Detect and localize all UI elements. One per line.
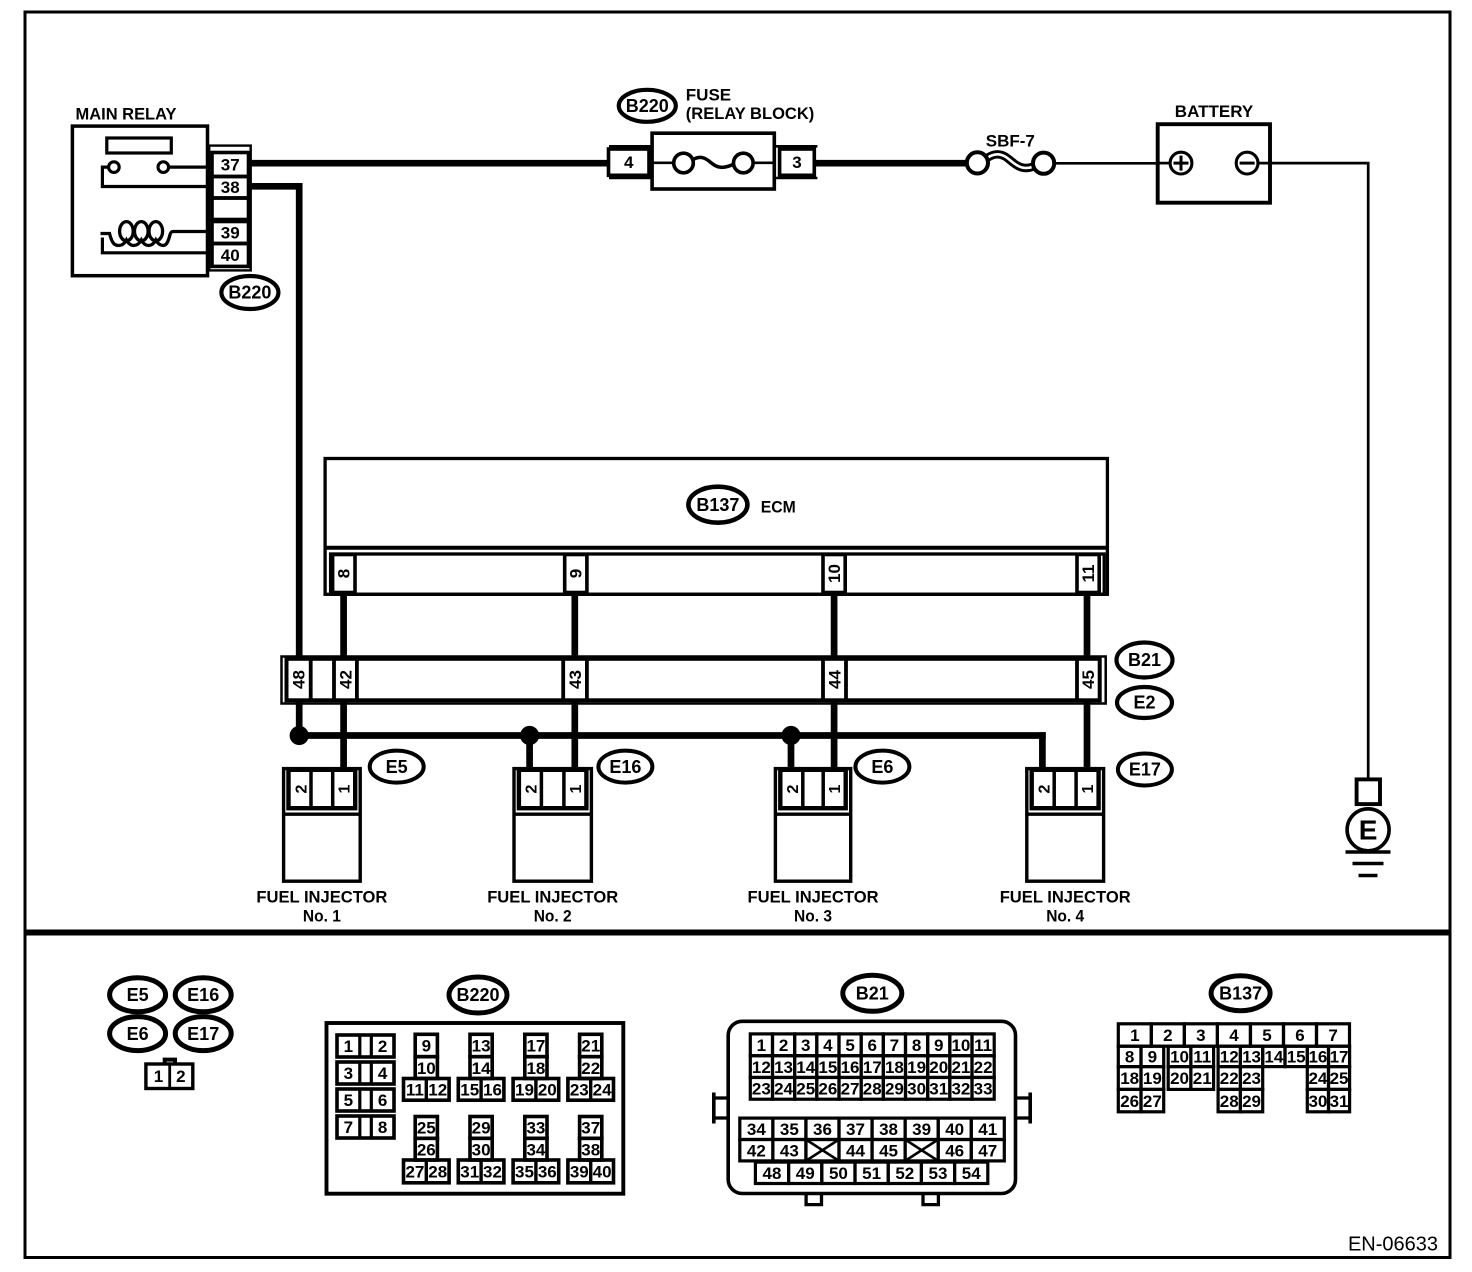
svg-text:7: 7: [1328, 1026, 1337, 1045]
svg-text:24: 24: [593, 1081, 612, 1100]
connector E6 oval: [855, 751, 909, 783]
fuel injector No. 2 label: [487, 888, 618, 926]
svg-text:26: 26: [417, 1140, 436, 1159]
ECM connector strip: [331, 554, 1105, 594]
svg-text:5: 5: [1262, 1026, 1271, 1045]
svg-text:22: 22: [581, 1059, 600, 1078]
svg-text:39: 39: [570, 1163, 589, 1182]
svg-text:6: 6: [1295, 1026, 1304, 1045]
svg-text:3: 3: [801, 1036, 810, 1055]
svg-text:21: 21: [1193, 1069, 1212, 1088]
svg-text:E2: E2: [1133, 693, 1155, 713]
svg-text:12: 12: [428, 1081, 447, 1100]
svg-text:11: 11: [1079, 565, 1098, 583]
svg-text:1: 1: [568, 784, 585, 793]
svg-text:No. 3: No. 3: [794, 907, 832, 926]
svg-text:E: E: [1359, 815, 1378, 846]
svg-text:16: 16: [841, 1058, 860, 1077]
B220 pins 3-4: [337, 1062, 394, 1084]
svg-text:10: 10: [417, 1059, 436, 1078]
connector B137 oval in ECM: [688, 487, 747, 523]
wire contact right to pin 37: [169, 166, 213, 169]
connector E16 oval: [598, 751, 652, 783]
svg-text:17: 17: [863, 1058, 882, 1077]
svg-text:35: 35: [780, 1120, 799, 1139]
fuse box: [652, 133, 774, 189]
svg-text:37: 37: [221, 155, 240, 174]
svg-text:E6: E6: [871, 757, 893, 777]
fuel injector No. 3 body: [775, 769, 850, 882]
svg-text:27: 27: [1143, 1092, 1162, 1111]
B137 pins 1-7 row: [1118, 1024, 1349, 1046]
svg-text:30: 30: [472, 1140, 491, 1159]
svg-text:40: 40: [221, 246, 240, 265]
pin 8: [333, 555, 355, 593]
svg-text:19: 19: [1143, 1069, 1162, 1088]
svg-text:5: 5: [344, 1091, 353, 1110]
svg-text:16: 16: [1308, 1048, 1327, 1067]
relay coil: [101, 222, 214, 246]
svg-text:13: 13: [472, 1037, 491, 1056]
svg-text:15: 15: [1287, 1048, 1306, 1067]
svg-text:19: 19: [907, 1058, 926, 1077]
svg-text:2: 2: [1163, 1026, 1172, 1045]
svg-text:20: 20: [1170, 1069, 1189, 1088]
svg-text:42: 42: [747, 1141, 766, 1160]
B220 pins 9-12: [404, 1034, 450, 1100]
svg-text:17: 17: [1330, 1048, 1349, 1067]
svg-text:44: 44: [846, 1141, 865, 1160]
svg-text:43: 43: [566, 670, 585, 689]
svg-text:21: 21: [951, 1058, 970, 1077]
fuse block label: [686, 86, 815, 124]
svg-text:48: 48: [763, 1164, 782, 1183]
wire pin 45 to injector 4 pin 1: [1084, 700, 1091, 770]
svg-text:EN-06633: EN-06633: [1348, 1234, 1438, 1256]
wire bus to injector 4 pin 2: [1039, 732, 1046, 770]
connector E17 oval: [1118, 754, 1172, 786]
svg-text:3: 3: [1196, 1026, 1205, 1045]
B220 pins 25-28: [404, 1117, 450, 1183]
svg-text:10: 10: [1170, 1048, 1189, 1067]
wire battery to ground: [1258, 162, 1370, 165]
svg-text:17: 17: [526, 1037, 545, 1056]
svg-text:25: 25: [796, 1080, 815, 1099]
svg-text:6: 6: [378, 1091, 387, 1110]
svg-text:B220: B220: [626, 96, 669, 116]
connector B220 oval (legend): [449, 977, 507, 1013]
fusible link SBF-7: [967, 152, 1054, 174]
svg-text:18: 18: [526, 1059, 545, 1078]
svg-text:SBF-7: SBF-7: [986, 131, 1035, 150]
connector B21 oval: [1117, 643, 1173, 678]
B21 pins 1-33 grid: [750, 1034, 994, 1099]
svg-text:39: 39: [221, 223, 240, 242]
svg-text:6: 6: [868, 1036, 877, 1055]
svg-text:11: 11: [1193, 1048, 1211, 1067]
B137 pins 8-31 grid: [1118, 1046, 1349, 1112]
wire coil to pin 40: [102, 238, 213, 253]
svg-text:7: 7: [890, 1036, 899, 1055]
svg-text:E17: E17: [1129, 760, 1161, 780]
svg-text:25: 25: [1330, 1069, 1349, 1088]
svg-text:4: 4: [823, 1036, 833, 1055]
svg-text:10: 10: [825, 564, 844, 583]
B220 pins 37-40: [568, 1117, 614, 1183]
B220 pins 5-6: [337, 1089, 394, 1111]
relay contact left: [109, 162, 120, 173]
ECM U B137 box: [325, 459, 1107, 595]
svg-text:19: 19: [515, 1081, 534, 1100]
wire pin 43 to injector 2 pin 1: [571, 700, 578, 770]
svg-text:13: 13: [1242, 1048, 1261, 1067]
pin 38: [212, 177, 249, 199]
svg-text:1: 1: [154, 1067, 163, 1086]
svg-text:FUEL INJECTOR: FUEL INJECTOR: [1000, 888, 1131, 907]
svg-text:20: 20: [929, 1058, 948, 1077]
fuel injector No. 4 label: [1000, 888, 1131, 926]
svg-text:32: 32: [483, 1163, 502, 1182]
svg-text:1: 1: [827, 784, 844, 793]
B21 pins 48-54 grid: [755, 1162, 987, 1183]
svg-text:11: 11: [974, 1036, 992, 1055]
svg-text:5: 5: [845, 1036, 854, 1055]
svg-text:8: 8: [912, 1036, 921, 1055]
wire pin 3 to SBF-7: [814, 160, 968, 167]
svg-text:FUSE: FUSE: [686, 86, 731, 105]
connector E6 oval (legend): [110, 1017, 166, 1051]
svg-text:12: 12: [752, 1058, 771, 1077]
fuel injector No. 2 connector: [519, 770, 587, 808]
B220 pins 7-8: [337, 1116, 394, 1138]
svg-text:28: 28: [428, 1163, 447, 1182]
relay contact right: [158, 162, 169, 173]
relay K1 MAIN RELAY box: [72, 126, 207, 276]
svg-text:9: 9: [422, 1037, 431, 1056]
svg-text:E17: E17: [187, 1024, 219, 1044]
svg-text:1: 1: [344, 1037, 353, 1056]
svg-text:33: 33: [526, 1119, 545, 1138]
injector connector pinout view: [146, 1060, 193, 1089]
svg-text:34: 34: [526, 1140, 545, 1159]
svg-text:18: 18: [885, 1058, 904, 1077]
svg-text:2: 2: [779, 1036, 788, 1055]
svg-text:29: 29: [885, 1080, 904, 1099]
node junction 1: [290, 726, 309, 745]
fuel injector No. 4 body: [1027, 769, 1104, 882]
B220 pins 17-20: [513, 1034, 559, 1100]
svg-text:FUEL INJECTOR: FUEL INJECTOR: [256, 888, 387, 907]
svg-text:44: 44: [825, 670, 844, 689]
svg-text:BATTERY: BATTERY: [1175, 102, 1254, 121]
B220 pins 13-16: [458, 1034, 504, 1100]
svg-text:3: 3: [792, 153, 801, 172]
svg-text:24: 24: [774, 1080, 793, 1099]
harness strip cells: [287, 659, 1100, 701]
svg-text:47: 47: [978, 1141, 997, 1160]
svg-text:No. 1: No. 1: [303, 907, 341, 926]
fuel injector No. 1 label: [256, 888, 387, 926]
B220 pins 21-24: [568, 1034, 614, 1100]
svg-text:4: 4: [378, 1064, 388, 1083]
battery negative terminal: [1236, 152, 1258, 174]
battery positive terminal: [1158, 152, 1192, 174]
svg-text:30: 30: [907, 1080, 926, 1099]
fuel injector No. 3 label: [748, 888, 879, 926]
svg-text:E16: E16: [609, 757, 641, 777]
wire pin 37 to fuse pin 4: [249, 160, 609, 167]
svg-text:4: 4: [1229, 1026, 1239, 1045]
svg-text:12: 12: [1220, 1048, 1239, 1067]
svg-text:51: 51: [862, 1164, 881, 1183]
svg-text:MAIN RELAY: MAIN RELAY: [76, 105, 178, 124]
connector E2 oval: [1117, 687, 1172, 718]
svg-text:23: 23: [1242, 1069, 1261, 1088]
ground terminal box: [1357, 779, 1380, 804]
connector B137 oval (legend): [1211, 976, 1270, 1011]
node junction 2: [520, 726, 539, 745]
svg-text:37: 37: [581, 1119, 600, 1138]
svg-text:36: 36: [813, 1120, 832, 1139]
svg-text:53: 53: [929, 1164, 948, 1183]
svg-text:2: 2: [524, 784, 541, 793]
svg-text:42: 42: [336, 670, 355, 689]
harness strip outline: [282, 657, 1106, 704]
wire pin 38 down to injector bus: [249, 183, 303, 190]
B220 pins 1-2: [337, 1035, 394, 1057]
fuel injector No. 3 connector: [780, 770, 845, 808]
svg-text:16: 16: [483, 1081, 502, 1100]
fuse symbol: [652, 153, 774, 173]
wire pin 44 to injector 3 pin 1: [831, 700, 838, 770]
pin 40: [212, 244, 249, 267]
svg-text:B21: B21: [1128, 650, 1161, 670]
fuel injector No. 1 body: [284, 769, 361, 882]
svg-text:41: 41: [978, 1120, 997, 1139]
svg-text:32: 32: [951, 1080, 970, 1099]
svg-text:22: 22: [974, 1058, 993, 1077]
svg-text:11: 11: [406, 1081, 424, 1100]
svg-text:8: 8: [378, 1118, 387, 1137]
svg-text:FUEL INJECTOR: FUEL INJECTOR: [748, 888, 879, 907]
svg-text:18: 18: [1120, 1069, 1139, 1088]
svg-text:39: 39: [912, 1120, 931, 1139]
wire pin 10 to pin 44: [831, 592, 838, 660]
svg-text:1: 1: [337, 784, 354, 793]
svg-text:31: 31: [460, 1163, 479, 1182]
svg-text:38: 38: [221, 178, 240, 197]
connector E5 oval (legend): [110, 978, 166, 1012]
svg-text:40: 40: [593, 1163, 612, 1182]
svg-text:26: 26: [818, 1080, 837, 1099]
pin 11: [1077, 555, 1099, 593]
svg-text:15: 15: [818, 1058, 837, 1077]
connector B220 oval at relay: [221, 276, 278, 309]
svg-text:31: 31: [1330, 1092, 1349, 1111]
svg-text:34: 34: [747, 1120, 766, 1139]
svg-text:2: 2: [1037, 784, 1054, 793]
wire contact left to pin 38: [102, 167, 213, 186]
svg-text:24: 24: [1308, 1069, 1327, 1088]
svg-text:38: 38: [581, 1140, 600, 1159]
svg-text:B220: B220: [228, 283, 271, 303]
svg-text:4: 4: [624, 153, 634, 172]
svg-text:2: 2: [293, 784, 310, 793]
pin 37: [212, 153, 249, 177]
pin 3: [775, 146, 817, 178]
svg-text:B137: B137: [696, 495, 739, 515]
svg-text:13: 13: [774, 1058, 793, 1077]
fuel injector No. 4 connector: [1032, 770, 1099, 808]
connector E5 oval: [370, 751, 424, 783]
svg-text:23: 23: [752, 1080, 771, 1099]
svg-text:2: 2: [176, 1067, 185, 1086]
connector B21 oval (legend): [843, 975, 902, 1011]
svg-text:29: 29: [472, 1119, 491, 1138]
wire SBF-7 to battery: [1054, 162, 1157, 165]
svg-text:1: 1: [1130, 1026, 1139, 1045]
connector B220 relay pin block outline: [209, 146, 251, 271]
connector E16 oval (legend): [175, 978, 231, 1012]
svg-text:21: 21: [581, 1037, 600, 1056]
svg-text:31: 31: [929, 1080, 948, 1099]
svg-text:1: 1: [757, 1036, 766, 1055]
svg-text:15: 15: [460, 1081, 479, 1100]
svg-text:B220: B220: [456, 985, 499, 1005]
pin 39: [212, 222, 249, 244]
svg-text:2: 2: [378, 1037, 387, 1056]
svg-text:45: 45: [1079, 670, 1098, 689]
svg-text:20: 20: [538, 1081, 557, 1100]
svg-text:No. 4: No. 4: [1046, 907, 1084, 926]
svg-text:No. 2: No. 2: [534, 907, 572, 926]
svg-text:33: 33: [974, 1080, 993, 1099]
svg-text:54: 54: [962, 1164, 981, 1183]
B21 pins 34-47 grid: [740, 1118, 1005, 1161]
wire pin 42 to injector 1 pin 1: [340, 700, 347, 770]
blank pin cell: [212, 198, 249, 220]
battery box: [1158, 124, 1270, 203]
svg-text:E16: E16: [187, 985, 219, 1005]
wire junction 3 to injector 3 pin 2: [788, 736, 795, 771]
wire junction 2 to injector 2 pin 2: [526, 736, 533, 771]
ground symbol: [1346, 852, 1391, 876]
svg-text:E5: E5: [127, 985, 149, 1005]
svg-text:50: 50: [829, 1164, 848, 1183]
svg-text:8: 8: [335, 569, 354, 578]
pin 4: [609, 146, 652, 178]
connector B220 pinout view: [327, 1023, 624, 1194]
injector ground bus wire: [296, 732, 1046, 739]
B220 pins 33-36: [513, 1117, 559, 1183]
svg-text:52: 52: [895, 1164, 914, 1183]
svg-text:9: 9: [567, 569, 586, 578]
svg-text:8: 8: [1125, 1048, 1134, 1067]
svg-text:7: 7: [344, 1118, 353, 1137]
wire pin 9 to pin 43: [571, 592, 578, 660]
svg-text:30: 30: [1308, 1092, 1327, 1111]
B220 pins 29-32: [458, 1117, 504, 1183]
pin 9: [565, 555, 587, 593]
svg-text:48: 48: [289, 670, 308, 689]
svg-text:37: 37: [846, 1120, 865, 1139]
svg-text:9: 9: [1148, 1048, 1157, 1067]
connector E17 oval (legend): [175, 1017, 231, 1051]
connector B21 pinout view outline: [714, 1021, 1030, 1204]
svg-text:14: 14: [472, 1059, 491, 1078]
node junction 3: [781, 726, 800, 745]
svg-text:3: 3: [344, 1064, 353, 1083]
svg-text:2: 2: [785, 784, 802, 793]
svg-text:25: 25: [417, 1119, 436, 1138]
svg-text:14: 14: [1264, 1048, 1283, 1067]
svg-text:40: 40: [945, 1120, 964, 1139]
ground E circle: [1347, 809, 1389, 851]
svg-text:26: 26: [1120, 1092, 1139, 1111]
svg-text:9: 9: [934, 1036, 943, 1055]
wire pin 11 to pin 45: [1084, 592, 1091, 660]
svg-text:27: 27: [405, 1163, 424, 1182]
svg-text:14: 14: [796, 1058, 815, 1077]
svg-text:35: 35: [515, 1163, 534, 1182]
pin 10: [823, 555, 845, 593]
svg-text:45: 45: [879, 1141, 898, 1160]
svg-text:23: 23: [570, 1081, 589, 1100]
fuel injector No. 2 body: [514, 769, 591, 882]
svg-text:FUEL INJECTOR: FUEL INJECTOR: [487, 888, 618, 907]
wire pin 8 to pin 42: [340, 592, 347, 660]
relay contact bar: [107, 138, 172, 153]
fuel injector No. 1 connector: [289, 770, 356, 808]
svg-text:28: 28: [863, 1080, 882, 1099]
svg-text:29: 29: [1242, 1092, 1261, 1111]
svg-text:(RELAY BLOCK): (RELAY BLOCK): [686, 104, 815, 123]
svg-text:B137: B137: [1219, 983, 1262, 1003]
svg-text:49: 49: [796, 1164, 815, 1183]
svg-text:10: 10: [951, 1036, 970, 1055]
svg-text:43: 43: [780, 1141, 799, 1160]
svg-text:28: 28: [1220, 1092, 1239, 1111]
svg-text:22: 22: [1220, 1069, 1239, 1088]
svg-text:36: 36: [538, 1163, 557, 1182]
svg-text:38: 38: [879, 1120, 898, 1139]
svg-text:46: 46: [945, 1141, 964, 1160]
svg-text:ECM: ECM: [761, 497, 796, 516]
connector B220 oval at fuse: [619, 90, 676, 122]
svg-text:1: 1: [1080, 784, 1097, 793]
svg-text:E5: E5: [386, 757, 408, 777]
svg-text:E6: E6: [127, 1024, 149, 1044]
svg-text:B21: B21: [856, 984, 889, 1004]
svg-text:27: 27: [841, 1080, 860, 1099]
